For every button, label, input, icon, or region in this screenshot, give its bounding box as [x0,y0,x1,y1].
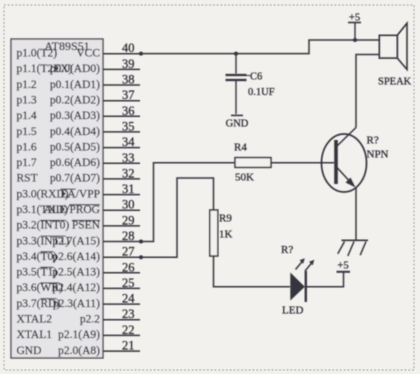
svg-text:24: 24 [122,292,135,306]
junction +5 tap [353,38,357,42]
svg-text:p0.0(AD0): p0.0(AD0) [50,63,100,75]
chassis ground (emitter) [338,240,368,256]
wire VCC: pin 40 to speaker (net VCC) [140,40,379,54]
speaker LS1 [379,23,407,69]
svg-text:NPN: NPN [367,149,389,161]
wire R9 to LED anode [214,256,291,287]
svg-text:R?: R? [281,244,293,256]
svg-text:p0.2(AD2): p0.2(AD2) [50,95,100,107]
svg-text:27: 27 [122,245,135,259]
svg-text:R4: R4 [234,142,247,154]
IC pin row 31: p3.0(RXD) / EA/VPP [17,182,141,200]
svg-text:PSEN: PSEN [72,220,101,232]
IC pin row 25: p3.6(WR) / p2.4(A12) [17,276,141,294]
svg-text:31: 31 [122,182,135,196]
svg-text:1K: 1K [219,229,233,241]
svg-text:p2.4(A12): p2.4(A12) [52,282,100,294]
ground GND (below C6) [226,115,249,129]
svg-text:SPEAK: SPEAK [378,77,412,88]
svg-text:38: 38 [122,73,135,87]
junction at pin 40 stub [139,52,143,56]
IC pin row 37: p1.3 / p0.2(AD2) [17,88,141,106]
svg-text:p0.5(AD5): p0.5(AD5) [50,141,100,153]
IC pin row 35: p1.5 / p0.4(AD4) [17,119,141,137]
svg-text:p3.5(T1): p3.5(T1) [17,267,58,279]
svg-text:0.1UF: 0.1UF [248,87,275,98]
junction C6 tap [234,52,238,56]
IC pin row 34: p1.6 / p0.5(AD5) [17,135,141,153]
svg-text:23: 23 [122,307,135,321]
svg-text:22: 22 [122,323,135,337]
svg-text:p2.3(A11): p2.3(A11) [53,298,100,310]
IC pin row 29: p3.2(INT0) / PSEN [17,213,141,231]
svg-text:p1.5: p1.5 [17,126,37,138]
svg-text:p2.1(A9): p2.1(A9) [58,329,100,341]
IC pin row 22: XTAL1 / p2.1(A9) [17,323,141,341]
svg-text:GND: GND [17,345,42,357]
svg-text:35: 35 [122,119,135,133]
svg-text:p0.4(AD4): p0.4(AD4) [50,126,100,138]
transistor Q1 NPN [322,128,367,193]
svg-text:p2.5(A13): p2.5(A13) [52,267,100,279]
label C6 [247,72,263,83]
svg-text:p1.6: p1.6 [17,141,37,153]
svg-text:p2.6(A14): p2.6(A14) [52,251,100,263]
IC U1 AT89S51 body [11,39,103,358]
wire LED cathode to +5 [306,272,344,287]
IC pin row 40: p1.0(T2) / VCC [17,41,141,59]
svg-text:p2.7(A15): p2.7(A15) [52,235,100,247]
svg-text:p1.0(T2): p1.0(T2) [17,48,58,60]
svg-text:p0.3(AD3): p0.3(AD3) [50,110,100,122]
wire emitter to chassis ground [355,188,357,241]
svg-text:33: 33 [122,151,135,165]
svg-text:34: 34 [122,135,135,149]
svg-text:GND: GND [226,119,249,130]
svg-text:39: 39 [122,57,135,71]
power +5 (LED supply) [337,261,351,272]
svg-text:p2.0(A8): p2.0(A8) [58,345,100,357]
svg-text:VCC: VCC [76,48,100,60]
IC pin row 33: p1.7 / p0.6(AD6) [17,151,141,169]
junction at pin 27 [139,255,143,259]
LED D1 [290,258,314,302]
IC pin row 28: p3.3(INT1) / p2.7(A15) [17,229,141,247]
svg-text:R?: R? [367,135,379,147]
svg-text:p0.7(AD7): p0.7(AD7) [50,173,100,185]
IC pin row 32: RST / p0.7(AD7) [17,166,141,184]
svg-text:21: 21 [122,339,135,353]
IC pin row 38: p1.2 / p0.1(AD1) [17,73,141,91]
resistor R9 [210,210,218,256]
svg-text:RST: RST [17,173,38,185]
svg-text:XTAL1: XTAL1 [17,329,53,341]
svg-text:26: 26 [122,260,135,274]
svg-text:29: 29 [122,213,135,227]
svg-text:p1.2: p1.2 [17,79,37,91]
svg-text:p3.2(INT0): p3.2(INT0) [17,220,70,232]
IC pin row 39: p1.1(T2EX) / p0.0(AD0) [17,57,141,75]
svg-text:XTAL2: XTAL2 [17,314,53,326]
junction at pin 28 [139,240,143,244]
svg-text:p1.3: p1.3 [17,95,37,107]
svg-text:p3.4(T0): p3.4(T0) [17,251,58,263]
wire pin 28 to R4 [140,163,235,242]
IC pin row 21: GND / p2.0(A8) [17,339,141,357]
IC pin row 36: p1.4 / p0.3(AD3) [17,104,141,122]
svg-text:28: 28 [122,229,135,243]
svg-text:p0.1(AD1): p0.1(AD1) [50,79,100,91]
svg-text:p1.4: p1.4 [17,110,37,122]
svg-text:40: 40 [122,41,135,55]
svg-text:50K: 50K [235,172,254,184]
IC pin row 23: XTAL2 / p2.2 [17,307,141,325]
svg-text:25: 25 [122,276,135,290]
capacitor C6 [226,54,247,114]
IC pin row 30: p3.1(TXD) / ALE/PROG [17,198,141,216]
svg-text:30: 30 [122,198,135,212]
svg-text:+5: +5 [337,261,348,272]
svg-text:p0.6(AD6): p0.6(AD6) [50,157,100,169]
power +5 (top, speaker supply) [348,13,361,41]
svg-text:LED: LED [282,305,303,317]
IC pin row 24: p3.7(RD) / p2.3(A11) [17,292,141,310]
IC pin row 26: p3.5(T1) / p2.5(A13) [17,260,141,278]
svg-text:36: 36 [122,104,135,118]
svg-text:R9: R9 [219,213,232,225]
svg-text:p1.7: p1.7 [17,157,37,169]
svg-text:C6: C6 [250,72,262,83]
svg-text:ALE/PROG: ALE/PROG [44,204,100,216]
svg-text:p2.2: p2.2 [80,314,100,326]
svg-text:37: 37 [122,88,135,102]
wire pin 27 to R9 [140,178,214,257]
svg-text:EA/VPP: EA/VPP [60,188,100,200]
IC pin row 27: p3.4(T0) / p2.6(A14) [17,245,141,263]
resistor R4 [235,158,271,168]
svg-text:32: 32 [122,166,135,180]
wire R4 to transistor base [271,162,334,164]
wire collector to speaker [356,55,379,128]
